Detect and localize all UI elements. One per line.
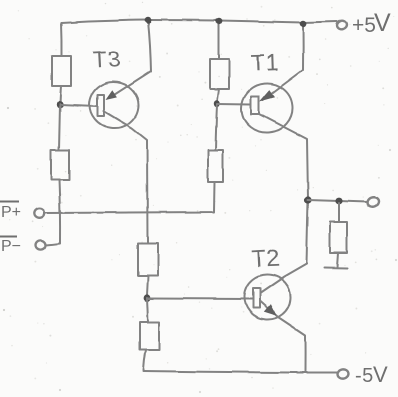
wire R7 bottom lead (337, 253, 338, 267)
svg-text:P−: P− (1, 238, 21, 255)
terminal -5V (337, 369, 349, 380)
node junction left (57, 101, 63, 109)
junction dot rail middle (216, 18, 223, 24)
wire R1 to node (60, 86, 61, 104)
wire T1 base (217, 103, 251, 106)
wire R5 to node (147, 276, 148, 295)
T1 emitter arrow (260, 90, 276, 102)
transistor T3 (60, 21, 151, 243)
svg-text:T3: T3 (92, 46, 122, 73)
resistor R3 (210, 59, 229, 89)
T3 collector wire (104, 111, 148, 243)
T2 base bar (253, 288, 260, 308)
T3 base bar (98, 95, 105, 116)
wire R2 down to P- corner (59, 180, 60, 243)
terminal P- (36, 240, 46, 249)
node output junction (304, 196, 311, 203)
T2 collector wire (261, 201, 309, 293)
T3 emitter arrow (106, 90, 117, 100)
ground (324, 267, 347, 270)
T1 emitter wire (263, 24, 303, 100)
resistor R1 (52, 56, 71, 86)
label P+ (0, 202, 21, 222)
resistor R4 (208, 150, 223, 182)
node junction middle (214, 100, 220, 107)
wire P+ line to middle resistor bottom (45, 182, 215, 213)
resistor R5 (138, 243, 158, 276)
wire R6 down to -5V rail corner (144, 350, 147, 370)
terminal P+ (34, 209, 44, 219)
resistor R7 (330, 222, 347, 253)
svg-text:T1: T1 (250, 49, 280, 76)
wire P- link (46, 244, 60, 246)
wire R7 top lead (338, 203, 340, 222)
T2 emitter arrow (264, 304, 276, 315)
T3 body circle (87, 79, 142, 131)
wire node to R2 (59, 104, 60, 150)
T2 emitter wire (260, 301, 305, 371)
junction dot output resistor (335, 198, 342, 205)
svg-text:V: V (374, 9, 391, 37)
junction dot rail left (145, 17, 152, 23)
T1 collector wire (259, 114, 308, 199)
transistor T2 (243, 201, 308, 371)
wire -5V rail (144, 371, 338, 373)
node junction bottom (144, 294, 151, 301)
wire left column top (60, 23, 63, 56)
svg-text:V: V (373, 362, 388, 387)
T3 base wire (60, 105, 98, 107)
terminal +5V (336, 20, 348, 31)
svg-text:+5: +5 (352, 14, 376, 37)
T1 base bar (251, 96, 259, 114)
T3 emitter wire (110, 21, 151, 98)
svg-text:T2: T2 (251, 245, 281, 273)
transistor T1 (239, 24, 308, 199)
svg-text:-5: -5 (355, 365, 374, 387)
junction dot rail right (300, 20, 307, 26)
resistor R6 (140, 322, 159, 350)
wire middle column top (218, 21, 220, 59)
resistor R2 (51, 150, 69, 180)
wire T2 base (147, 298, 253, 301)
wire output horizontal (308, 200, 368, 202)
wire +5V rail (61, 20, 337, 23)
T2 body circle (243, 273, 293, 322)
label P- (0, 237, 21, 256)
wire R3 to node (217, 89, 219, 103)
wire node to R6 (147, 298, 148, 322)
T1 body circle (239, 81, 295, 135)
terminal output (366, 196, 380, 208)
svg-text:P+: P+ (1, 204, 21, 221)
wire node to R4 (216, 104, 218, 150)
